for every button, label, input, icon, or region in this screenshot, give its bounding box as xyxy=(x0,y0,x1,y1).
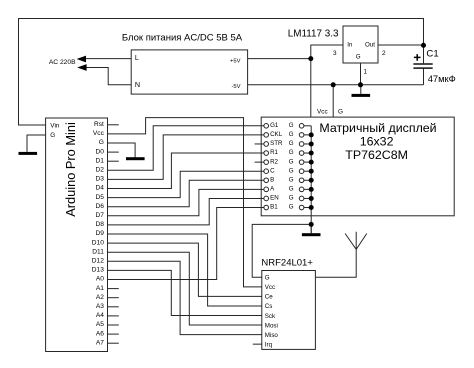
svg-text:D11: D11 xyxy=(92,248,104,255)
svg-text:In: In xyxy=(347,42,353,49)
wire D3 to display CKL xyxy=(108,135,264,180)
svg-text:Sck: Sck xyxy=(265,313,276,320)
svg-text:LM1117 3.3: LM1117 3.3 xyxy=(288,29,339,40)
wire G bus to NRF G xyxy=(252,224,311,277)
wire stub A6 xyxy=(108,333,119,335)
wire D13 to NRF Sck xyxy=(108,270,262,315)
svg-text:Vin: Vin xyxy=(50,123,60,130)
node bus junction row B1 xyxy=(309,205,314,210)
ground near Arduino Vin xyxy=(19,152,38,155)
wire display C G link xyxy=(304,170,311,172)
wire Arduino G to ground xyxy=(27,135,46,152)
wire stub A5 xyxy=(108,324,119,326)
svg-text:+5V: +5V xyxy=(230,58,241,64)
svg-text:G: G xyxy=(289,140,294,147)
svg-text:A6: A6 xyxy=(96,330,104,337)
display pin STR G circle xyxy=(299,142,304,147)
wire stub Rst xyxy=(108,124,119,126)
wire capacitor C1 bottom lead xyxy=(423,69,425,85)
svg-text:D7: D7 xyxy=(95,212,104,219)
svg-text:Vcc: Vcc xyxy=(317,109,328,116)
wire stub D0 xyxy=(108,151,119,153)
svg-text:D12: D12 xyxy=(92,258,104,265)
wire top rail Vin xyxy=(18,18,424,20)
wire display R2 G link xyxy=(304,161,311,163)
antenna ANT1 xyxy=(345,232,367,250)
svg-text:A7: A7 xyxy=(96,339,104,346)
svg-text:Rst: Rst xyxy=(94,121,104,128)
wire D12 to NRF Miso xyxy=(108,261,262,334)
node bus junction row A xyxy=(309,187,314,192)
display pin R1 G circle xyxy=(299,151,304,156)
svg-text:G: G xyxy=(99,139,104,146)
display pin G1 circle xyxy=(264,124,269,129)
arrowhead N xyxy=(77,64,86,71)
svg-text:G1: G1 xyxy=(270,122,279,129)
wire Arduino Vcc to NRF Vcc xyxy=(108,118,262,287)
svg-text:A3: A3 xyxy=(96,303,104,310)
node bus junction row B xyxy=(309,178,314,183)
svg-text:G: G xyxy=(289,195,294,202)
ground near Arduino G pin xyxy=(126,157,145,160)
wire D10 to NRF Ce xyxy=(108,243,262,296)
svg-text:C1: C1 xyxy=(426,48,438,59)
svg-text:Vcc: Vcc xyxy=(265,284,275,291)
svg-text:D2: D2 xyxy=(95,167,104,174)
wire display G bus xyxy=(310,126,312,233)
display pin STR circle xyxy=(264,142,269,147)
node bus junction row R2 xyxy=(309,160,314,165)
node bus junction row C xyxy=(309,169,314,174)
wire display B1 G link xyxy=(304,207,311,209)
wire Vcc drop to display xyxy=(310,59,312,118)
wire D8 to display EN xyxy=(108,198,264,224)
wire G drop to display xyxy=(332,85,334,117)
svg-text:Out: Out xyxy=(365,42,375,49)
display pin A G circle xyxy=(299,187,304,192)
wire D11 to NRF Mosi xyxy=(108,252,262,325)
svg-text:D9: D9 xyxy=(95,230,104,237)
wire Arduino G pin to ground xyxy=(108,143,136,157)
svg-text:C: C xyxy=(270,167,275,174)
svg-text:D0: D0 xyxy=(95,148,104,155)
display pin B1 G circle xyxy=(299,205,304,210)
node rail display-G junction xyxy=(331,82,336,87)
svg-text:Cs: Cs xyxy=(265,303,273,310)
svg-text:A2: A2 xyxy=(96,294,104,301)
wire display EN G link xyxy=(304,197,311,199)
node +5V junction xyxy=(308,56,313,61)
svg-text:Блок питания AC/DC 5В 5А: Блок питания AC/DC 5В 5А xyxy=(122,33,243,44)
svg-text:G: G xyxy=(338,109,343,116)
svg-text:R1: R1 xyxy=(270,149,278,156)
svg-text:CKL: CKL xyxy=(270,131,283,138)
wire D9 to NRF Cs xyxy=(108,234,262,306)
wire stub A2 xyxy=(108,297,119,299)
svg-text:B1: B1 xyxy=(270,204,278,211)
svg-text:R2: R2 xyxy=(270,158,278,165)
svg-text:N: N xyxy=(135,80,140,89)
arduino U2 box xyxy=(46,118,108,352)
svg-text:Miso: Miso xyxy=(265,332,279,339)
capacitor C1 xyxy=(413,54,432,69)
display pin B circle xyxy=(264,178,269,183)
node bus junction row R1 xyxy=(309,151,314,156)
wire junction to LM1117 In pin 3 xyxy=(311,45,343,59)
svg-text:STR: STR xyxy=(270,140,283,147)
wire stub display R2 xyxy=(255,161,264,163)
svg-text:D5: D5 xyxy=(95,194,104,201)
display pin G1 G circle xyxy=(299,124,304,129)
node C1 top node xyxy=(421,43,426,48)
wire stub A4 xyxy=(108,315,119,317)
svg-text:G: G xyxy=(289,204,294,211)
wire LM1117 G pin 1 to rail xyxy=(360,63,362,85)
wire +5V output to junction xyxy=(248,58,311,60)
NRF24L01 U4 box xyxy=(262,271,316,350)
svg-text:G: G xyxy=(265,275,270,282)
display pin EN circle xyxy=(264,196,269,201)
svg-text:-5V: -5V xyxy=(231,84,240,90)
wire D6 to display B xyxy=(108,180,264,206)
display pin A circle xyxy=(264,187,269,192)
display pin C circle xyxy=(264,169,269,174)
regulator U1 LM1117 box xyxy=(343,26,378,63)
svg-text:G: G xyxy=(50,132,55,139)
wire stub display STR xyxy=(255,143,264,145)
wire stub A7 xyxy=(108,342,119,344)
wire left frame drop to Arduino Vin xyxy=(19,18,46,125)
display pin CKL G circle xyxy=(299,133,304,138)
svg-text:A4: A4 xyxy=(96,312,104,319)
svg-text:A0: A0 xyxy=(96,276,104,283)
svg-text:Матричный дисплей: Матричный дисплей xyxy=(319,121,436,135)
wire D5 to display C xyxy=(108,171,264,197)
display pin C G circle xyxy=(299,169,304,174)
ground display bus xyxy=(302,224,321,236)
wire display G1 G link xyxy=(304,125,311,127)
svg-text:A5: A5 xyxy=(96,321,104,328)
svg-text:Vcc: Vcc xyxy=(93,130,105,137)
svg-text:2: 2 xyxy=(382,50,386,57)
wire right drop top rail to C1 node xyxy=(423,18,425,45)
wire D4 to display R1 xyxy=(108,153,264,188)
wire NRF to antenna xyxy=(315,249,356,277)
wire capacitor C1 top lead xyxy=(423,45,425,63)
wire display A G link xyxy=(304,188,311,190)
svg-text:D10: D10 xyxy=(92,239,104,246)
node rail LM1117-G junction xyxy=(358,82,363,87)
wire display R1 G link xyxy=(304,152,311,154)
svg-text:B: B xyxy=(270,177,274,184)
svg-text:G: G xyxy=(356,53,361,60)
wire stub A3 xyxy=(108,306,119,308)
svg-text:G: G xyxy=(289,177,294,184)
display pin R1 circle xyxy=(264,151,269,156)
svg-text:EN: EN xyxy=(270,195,279,202)
svg-text:G: G xyxy=(289,149,294,156)
svg-text:D6: D6 xyxy=(95,203,104,210)
svg-text:16x32: 16x32 xyxy=(360,135,394,149)
svg-text:Irq: Irq xyxy=(265,342,273,349)
wire L pin to AC arrow xyxy=(85,58,131,60)
wire stub A1 xyxy=(108,288,119,290)
svg-text:1: 1 xyxy=(364,68,368,75)
node bus junction row CKL xyxy=(309,132,314,137)
arrowhead L xyxy=(77,56,86,63)
svg-text:Ce: Ce xyxy=(265,294,273,301)
wire LM1117 Out pin 2 to C1 node xyxy=(378,44,424,46)
svg-text:D4: D4 xyxy=(95,185,104,192)
svg-text:47мкФ: 47мкФ xyxy=(428,73,456,84)
node bus junction row STR xyxy=(309,141,314,146)
display pin B G circle xyxy=(299,178,304,183)
svg-text:L: L xyxy=(135,53,139,62)
svg-text:G: G xyxy=(289,158,294,165)
svg-text:3: 3 xyxy=(333,50,337,57)
svg-text:Mosi: Mosi xyxy=(265,322,278,329)
node bus junction row EN xyxy=(309,196,314,201)
svg-text:D1: D1 xyxy=(95,157,104,164)
display U3 box xyxy=(261,117,454,216)
wire display STR G link xyxy=(304,143,311,145)
svg-text:A1: A1 xyxy=(96,285,104,292)
wire stub D1 xyxy=(108,160,119,162)
svg-text:G: G xyxy=(289,167,294,174)
wire display CKL G link xyxy=(304,134,311,136)
display pin EN G circle xyxy=(299,196,304,201)
svg-text:G: G xyxy=(289,131,294,138)
wire stub NRF Irq xyxy=(253,343,262,345)
wire display B G link xyxy=(304,179,311,181)
svg-text:D3: D3 xyxy=(95,176,104,183)
power supply PS1 box xyxy=(131,50,247,94)
ground LM1117 xyxy=(352,85,371,97)
svg-text:ТР762С8М: ТР762С8М xyxy=(345,148,408,162)
wire D2 to display G1 xyxy=(108,126,264,171)
svg-text:G: G xyxy=(289,186,294,193)
svg-text:D13: D13 xyxy=(92,267,104,274)
display pin B1 circle xyxy=(264,205,269,210)
display pin CKL circle xyxy=(264,133,269,138)
display pin R2 circle xyxy=(264,160,269,165)
wire N pin to AC arrow xyxy=(86,68,131,85)
wire A0 to display B1 xyxy=(108,208,264,280)
display pin R2 G circle xyxy=(299,160,304,165)
node G bus to NRF junction xyxy=(309,222,314,227)
wire D7 to display A xyxy=(108,189,264,215)
svg-text:Arduino Pro Mini: Arduino Pro Mini xyxy=(63,122,78,217)
svg-text:G: G xyxy=(289,122,294,129)
svg-text:AC 220В: AC 220В xyxy=(49,59,76,66)
svg-text:NRF24L01+: NRF24L01+ xyxy=(261,257,313,268)
svg-text:D8: D8 xyxy=(95,221,104,228)
wire ground rail -5V to C1 xyxy=(248,84,424,86)
